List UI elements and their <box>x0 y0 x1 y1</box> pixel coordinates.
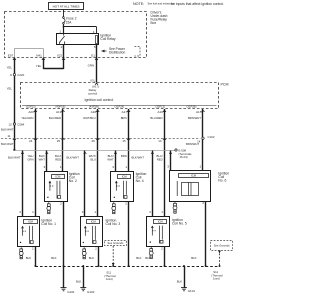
wire coil No. 6 pin 2 to ground bus (BLK) <box>205 201 207 266</box>
svg-text:GRN: GRN <box>88 64 94 68</box>
svg-text:BLU/RED: BLU/RED <box>150 116 162 120</box>
wire PCM pin A16 to ignition coil No. 5 <box>164 109 166 216</box>
spark plug No. 4 <box>112 202 116 214</box>
connector pin 25 <box>62 138 65 140</box>
wire coil No. 2 pin 2 to ground bus (BLK) <box>63 202 65 267</box>
svg-text:BRN: BRN <box>121 154 127 158</box>
spark plug No. 6 <box>173 202 177 214</box>
connector pin 13 <box>163 138 166 140</box>
wire power bus to ignition coil No. 1 pin 3 <box>22 151 24 217</box>
ignition coil No. 4 <box>111 172 134 202</box>
svg-text:Coil No. 1: Coil No. 1 <box>41 222 56 226</box>
inline connector row <box>1 138 200 140</box>
HOT AT ALL TIMES label <box>49 3 84 10</box>
svg-text:BLU/RED: BLU/RED <box>49 116 61 120</box>
svg-text:No. 2: No. 2 <box>69 179 77 183</box>
ignition coil No. 6 <box>170 171 211 202</box>
svg-text:control: control <box>88 92 97 96</box>
PCM connector strip line <box>22 105 217 107</box>
connector C584 pin 12 <box>13 123 15 125</box>
svg-text:X22: X22 <box>57 54 63 58</box>
ground G101 right <box>181 288 187 291</box>
svg-text:(32P13): (32P13) <box>156 105 166 109</box>
svg-text:12: 12 <box>8 122 12 126</box>
svg-text:BLK/WHT: BLK/WHT <box>132 155 145 159</box>
wire power bus to ignition coil No. 4 pin 3 <box>115 151 117 172</box>
relay switch contact <box>63 34 65 36</box>
relay coil <box>96 36 98 44</box>
wire U-turn to N41 <box>43 68 63 70</box>
ground bus <box>35 266 219 268</box>
svg-text:See Grounds: See Grounds <box>107 241 123 245</box>
svg-text:G102: G102 <box>87 290 95 294</box>
wire coil No. 5 pin 2 to ground bus (BLK) <box>164 247 166 267</box>
svg-text:WHT: WHT <box>39 157 46 161</box>
wire coil No. 3 pin 2 to ground bus (BLK) <box>98 247 100 267</box>
svg-text:RED: RED <box>55 157 61 161</box>
svg-text:E1: E1 <box>91 54 95 58</box>
wire fuse to relay pin 1 <box>63 24 65 34</box>
wire PCM pin A20 to ignition coil No. 1 <box>35 109 37 217</box>
svg-text:ICM: ICM <box>28 220 34 224</box>
svg-text:24: 24 <box>29 139 33 143</box>
wire relay pin2 down through X22 <box>63 45 65 70</box>
connector row pin 11 <box>13 138 16 140</box>
svg-text:GRN: GRN <box>27 157 33 161</box>
svg-text:PCM: PCM <box>221 82 229 86</box>
svg-text:BLK/WHT: BLK/WHT <box>67 155 80 159</box>
connector C220 pin 8 <box>13 73 15 75</box>
svg-text:NOTE:: NOTE: <box>133 2 144 6</box>
see grounds callout (left) <box>105 241 127 246</box>
svg-text:ICM: ICM <box>122 175 128 179</box>
wire power bus to ignition coil No. 5 pin 3 <box>152 151 154 217</box>
svg-text:BRN: BRN <box>121 116 127 120</box>
svg-text:Coil No. 5: Coil No. 5 <box>172 222 187 226</box>
connector C102 pin 14 <box>202 137 204 139</box>
svg-text:16-24): 16-24) <box>180 155 188 159</box>
svg-text:A19: A19 <box>56 110 62 114</box>
wire bus to G101 (left) <box>63 267 65 288</box>
svg-text:A18: A18 <box>91 110 97 114</box>
svg-text:26: 26 <box>91 139 95 143</box>
svg-text:BLK: BLK <box>191 256 196 260</box>
relay: Ignition Coil Relay box <box>57 34 99 45</box>
wire PCM pin A15 to ignition coil No. 6 <box>202 109 204 170</box>
svg-text:BLK: BLK <box>145 256 150 260</box>
svg-text:BLK: BLK <box>26 256 31 260</box>
wire bus to G101 (right) <box>183 265 185 267</box>
ground G102 <box>80 288 86 291</box>
svg-text:BRN/WHT: BRN/WHT <box>188 116 201 120</box>
svg-text:Joint): Joint) <box>106 277 113 281</box>
svg-text:BLK: BLK <box>136 256 141 260</box>
svg-text:(43P1B): (43P1B) <box>56 105 66 109</box>
svg-text:BLK: BLK <box>89 256 94 260</box>
svg-text:15: 15 <box>122 139 126 143</box>
ignition coil No. 1 <box>18 217 40 247</box>
svg-text:WHT: WHT <box>107 157 114 161</box>
svg-text:ICM: ICM <box>55 175 61 179</box>
svg-text:25: 25 <box>57 139 61 143</box>
svg-text:ICM: ICM <box>191 174 197 178</box>
svg-text:N41: N41 <box>36 54 42 58</box>
svg-text:A17: A17 <box>122 110 128 114</box>
wire PCM pin A18 to ignition coil No. 3 <box>97 109 99 217</box>
connector pin 15 <box>127 138 130 140</box>
spark plug No. 3 <box>82 247 86 258</box>
spark plug No. 2 <box>47 202 51 214</box>
ignition coil No. 5 <box>147 217 170 247</box>
svg-text:for inputs that affect ignitio: for inputs that affect ignition control. <box>171 2 224 6</box>
svg-text:13: 13 <box>158 139 162 143</box>
wire PCM pin A17 to ignition coil No. 4 <box>128 109 130 171</box>
ignition coil No. 2 <box>45 172 68 202</box>
see power distribution callout <box>102 50 107 52</box>
fuse F2 "Fuse 2 15A" <box>63 17 65 19</box>
wire E07 down (YEL) <box>14 58 16 150</box>
svg-text:Distribution: Distribution <box>109 51 125 55</box>
svg-text:Coil Relay: Coil Relay <box>100 37 116 41</box>
svg-text:YEL/GRN: YEL/GRN <box>21 116 33 120</box>
pin E07 <box>13 58 16 60</box>
ignition coil No. 3 <box>81 217 103 247</box>
svg-text:No. 6: No. 6 <box>218 178 226 182</box>
svg-text:RED: RED <box>157 157 163 161</box>
svg-text:(43P2B): (43P2B) <box>89 105 99 109</box>
svg-text:(31P2B): (31P2B) <box>187 105 197 109</box>
connector pin 24 <box>34 138 37 140</box>
wire coil No. 1 pin 2 to ground bus (BLK) <box>35 247 37 267</box>
wire bus to G102 <box>82 265 84 267</box>
svg-text:G101: G101 <box>188 289 196 293</box>
connector pin 26 <box>96 138 99 140</box>
svg-text:A15: A15 <box>196 110 202 114</box>
svg-text:HOT AT ALL TIMES: HOT AT ALL TIMES <box>53 4 80 8</box>
svg-text:11: 11 <box>7 134 10 138</box>
svg-text:(32P12): (32P12) <box>26 105 36 109</box>
power bus from relay feed <box>13 149 15 151</box>
svg-text:Ignition coil control: Ignition coil control <box>85 98 114 102</box>
svg-text:YEL: YEL <box>7 87 13 91</box>
PCM box (dashed) <box>21 83 219 109</box>
svg-text:BLK: BLK <box>76 280 81 284</box>
svg-text:A20: A20 <box>28 110 34 114</box>
svg-text:BLU: BLU <box>90 157 95 161</box>
svg-text:BLK/WHT: BLK/WHT <box>8 155 21 159</box>
wire relay pin5 down to PCM (GRN) <box>96 45 98 83</box>
wire PCM pin A19 to ignition coil No. 2 <box>62 109 64 171</box>
svg-text:YEL: YEL <box>7 65 13 69</box>
see grounds callout (right) <box>211 241 233 251</box>
svg-text:C584: C584 <box>17 122 24 126</box>
svg-text:15A: 15A <box>66 21 72 25</box>
svg-text:See Grounds: See Grounds <box>214 243 230 247</box>
wire HOT to fuse 2 <box>63 9 65 16</box>
svg-text:Box: Box <box>151 21 157 25</box>
svg-text:(31P24): (31P24) <box>115 105 125 109</box>
svg-text:C220: C220 <box>17 73 24 77</box>
wire power bus to ignition coil No. 3 pin 3 <box>84 151 86 217</box>
svg-text:A16: A16 <box>158 110 164 114</box>
svg-text:WHT/BLU: WHT/BLU <box>83 116 96 120</box>
svg-text:Coil No. 3: Coil No. 3 <box>106 222 121 226</box>
svg-text:IGL: IGL <box>91 78 96 82</box>
svg-text:No. 4: No. 4 <box>136 179 144 183</box>
driver underdash fuse/relay box (dashed) <box>5 12 147 58</box>
wire power bus to ignition coil No. 2 pin 3 <box>46 151 48 172</box>
svg-text:E07: E07 <box>8 54 14 58</box>
svg-text:ICM: ICM <box>158 219 164 223</box>
internal bus inside fuse box (gray) <box>43 49 45 58</box>
svg-text:BLK/WHT: BLK/WHT <box>1 128 14 132</box>
svg-text:Joint): Joint) <box>213 277 220 281</box>
svg-text:YEL: YEL <box>36 64 42 68</box>
splice E-508 <box>175 149 177 151</box>
wire power bus to ignition coil No. 6 pin 3 <box>170 151 172 171</box>
ground G101 <box>61 288 67 291</box>
svg-text:BLK: BLK <box>177 280 182 284</box>
svg-text:C102: C102 <box>208 135 215 139</box>
wire coil No. 4 pin 2 to ground bus (BLK) <box>128 202 130 267</box>
svg-text:G101: G101 <box>67 290 75 294</box>
wire branch to relay pin 4 <box>63 26 65 28</box>
svg-text:ICM: ICM <box>91 220 97 224</box>
svg-text:BLK: BLK <box>51 256 56 260</box>
svg-text:BRN/WHT: BRN/WHT <box>186 142 199 146</box>
spark plug No. 1 <box>19 247 23 258</box>
svg-text:BLK/WHT: BLK/WHT <box>1 142 14 146</box>
spark plug No. 5 <box>149 247 153 259</box>
